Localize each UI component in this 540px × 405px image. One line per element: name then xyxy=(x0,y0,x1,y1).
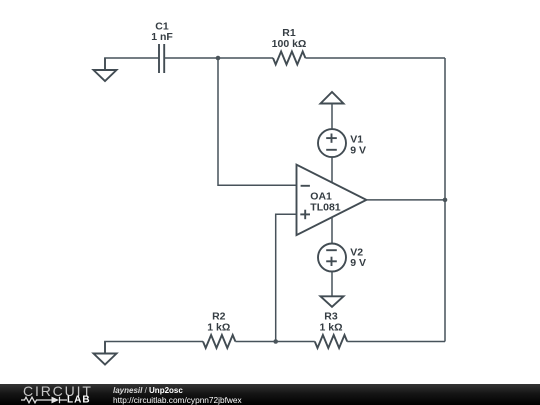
capacitor C1 plates xyxy=(159,44,164,73)
voltage source V2 xyxy=(318,244,346,272)
footer black bar xyxy=(0,384,540,405)
node A junction dot xyxy=(216,56,221,61)
svg-text:1 nF: 1 nF xyxy=(151,31,173,43)
wire ground G1 to C1 xyxy=(104,57,159,59)
svg-text:1 kΩ: 1 kΩ xyxy=(207,322,230,334)
svg-text:9 V: 9 V xyxy=(350,145,366,157)
voltage source V1 xyxy=(318,129,346,157)
wire op-amp output xyxy=(366,199,445,201)
svg-text:TL081: TL081 xyxy=(310,202,341,214)
resistor R2 zigzag xyxy=(203,335,235,348)
svg-text:100 kΩ: 100 kΩ xyxy=(272,38,307,50)
resistor R3 zigzag xyxy=(315,335,347,348)
svg-text:LAB: LAB xyxy=(67,395,91,405)
ground symbol G1 top-left xyxy=(94,58,117,81)
ground symbol G2 bottom-left xyxy=(94,342,117,365)
wire R3 to right rail xyxy=(347,341,445,343)
op-amp OA1 triangle body xyxy=(297,165,367,235)
wire C1 to node A xyxy=(164,57,218,59)
svg-text:1 kΩ: 1 kΩ xyxy=(319,322,342,334)
wire node B up to non-inverting input xyxy=(276,214,297,341)
wire V2 to negative supply arrow xyxy=(331,272,333,297)
wire node B to R3 xyxy=(276,341,315,343)
wire ground G2 to R2 xyxy=(104,341,203,343)
footer title laynesil / Unp2osc xyxy=(113,386,242,405)
positive power flag arrow xyxy=(321,92,344,104)
node C junction dot xyxy=(443,198,448,203)
wire op-amp bottom to V2 xyxy=(331,217,333,244)
wire node A to R1 xyxy=(218,57,273,59)
node B junction dot xyxy=(273,339,278,344)
wire V1 to op-amp top xyxy=(331,157,333,183)
wire right rail vertical xyxy=(444,58,446,342)
wire R1 to right rail xyxy=(305,57,445,59)
wire node A down to inverting input xyxy=(218,58,297,185)
footer url xyxy=(113,395,242,405)
CircuitLab logo xyxy=(0,384,110,405)
negative supply arrow xyxy=(321,296,344,307)
wire R2 to node B xyxy=(235,341,275,343)
resistor R1 zigzag xyxy=(273,52,305,65)
svg-text:9 V: 9 V xyxy=(350,257,366,269)
